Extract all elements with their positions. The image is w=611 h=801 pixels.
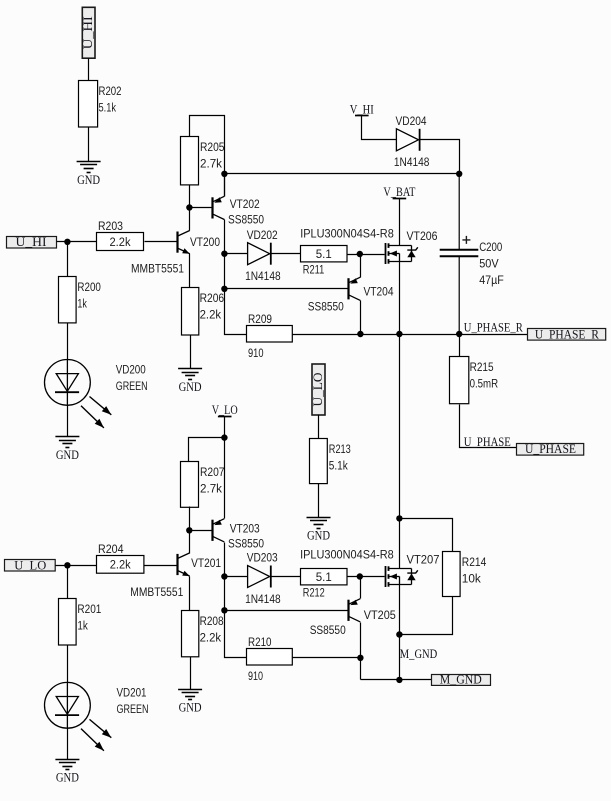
svg-text:10k: 10k [462,572,482,586]
svg-text:MMBT5551: MMBT5551 [130,585,183,599]
wire R215 to U_PHASE [460,405,517,448]
junction node rail right [456,171,462,177]
transistor VT203 [213,519,265,551]
wire node to VT203 base [190,530,212,532]
power port V_LO [212,403,238,417]
junction node VD202 anode [221,251,227,257]
ground GND (R206) [178,369,202,395]
svg-text:U_PHASE_R: U_PHASE_R [464,321,524,335]
svg-text:IPLU300N04S4-R8: IPLU300N04S4-R8 [300,227,394,241]
wire M_GND rail [361,679,432,681]
svg-text:VT203: VT203 [230,521,260,535]
resistor R210 [247,635,293,683]
wire VT204 emitter up [360,255,362,278]
junction node VT204 base tap [221,286,227,292]
wire rail to R215 [459,335,461,357]
svg-text:R202: R202 [99,84,122,98]
wire VT200 emitter to R206 [189,254,191,288]
wire VT205 emitter up [360,577,362,599]
svg-text:R206: R206 [200,291,225,305]
wire R200 to VD200 [67,323,69,360]
svg-text:MMBT5551: MMBT5551 [131,262,184,276]
wire node to VT204 base [225,288,348,290]
diode VD204 [394,114,430,169]
svg-text:910: 910 [248,346,264,360]
LED VD200 [45,360,148,428]
resistor R215 [450,357,499,404]
wire VT207 source down [399,585,401,680]
wire node to VT205 base [225,610,348,612]
svg-text:U_PHASE: U_PHASE [464,435,511,449]
transistor VT205 [310,599,396,637]
wire to VD202 anode [225,253,248,255]
svg-text:U_LO: U_LO [311,373,325,407]
resistor R209 [247,312,293,360]
wire VT204 collector down [360,301,362,335]
wire R204 to VT201 base [145,565,178,567]
resistor R208 [182,611,224,657]
junction node M_GND [396,677,402,683]
svg-text:R210: R210 [248,635,272,649]
resistor R203 [97,219,144,251]
svg-text:R214: R214 [462,555,487,569]
svg-text:1N4148: 1N4148 [394,155,430,169]
net label U_PHASE [517,442,584,456]
svg-text:1N4148: 1N4148 [245,592,281,606]
svg-text:U_PHASE_R: U_PHASE_R [535,328,600,342]
resistor R213 [310,439,351,484]
wire VT206 source to VT207 drain [399,335,401,569]
junction node R214 top tap [396,515,402,521]
svg-text:GND: GND [179,701,202,715]
net label M_GND [432,673,491,687]
svg-text:5.1: 5.1 [316,570,332,584]
svg-text:VT201: VT201 [191,556,221,570]
resistor R205 [181,137,225,185]
wire V_LO stub [224,417,226,438]
junction node VD203 anode [221,573,227,579]
svg-text:SS8550: SS8550 [308,299,344,313]
power port V_HI [350,102,374,116]
svg-text:5.1k: 5.1k [99,101,117,115]
svg-text:1k: 1k [77,297,87,311]
svg-text:VD201: VD201 [117,685,147,699]
wire VT202 collector column [225,220,247,335]
svg-text:2.2k: 2.2k [200,308,222,322]
svg-text:VT205: VT205 [364,608,396,622]
svg-text:GREEN: GREEN [117,702,149,716]
junction node gate/VT204 emitter [357,251,363,257]
net label U_LO (pull) (vertical) [311,364,325,415]
svg-text:U_HI: U_HI [16,235,47,249]
svg-text:5.1: 5.1 [316,247,332,261]
diode VD202 [245,228,281,283]
net label U_HI (input) [7,235,57,249]
svg-text:50V: 50V [479,256,499,270]
svg-text:R215: R215 [470,360,494,374]
transistor VT206 [386,229,438,264]
wire VT206 source down [399,262,401,335]
wire R213 to GND [318,484,320,518]
ground GND (VD201) [55,760,79,785]
wire to R214 bottom [400,597,453,635]
wire R211 to VT206 gate [347,254,385,256]
svg-text:VT206: VT206 [407,229,438,243]
resistor R212 [301,569,348,600]
svg-text:VD204: VD204 [396,114,427,128]
capacitor C200 [440,174,504,334]
svg-text:1k: 1k [77,619,88,633]
wire VD204 to C200 column [420,140,460,174]
wire U_LO to R204 [56,565,97,567]
wire VD203 to R212 [271,576,301,578]
wire R210 to node [293,657,361,659]
ground GND (VD200) [55,437,79,462]
resistor R211 [301,246,348,277]
transistor VT202 [213,196,265,226]
svg-text:R203: R203 [98,219,123,233]
svg-text:2.7k: 2.7k [200,482,223,496]
wire R203 to VT200 base [145,241,178,243]
wire output rail U_PHASE_R [293,334,528,336]
wire U_HI label to R202 [88,59,90,81]
net label U_HI (top) (vertical) [81,7,95,58]
LED VD201 [45,682,149,750]
svg-text:GND: GND [77,173,100,187]
junction node U_HI/R200 [64,239,70,245]
resistor R214 [443,552,487,597]
wire to R214 top [400,519,453,552]
svg-text:VT207: VT207 [407,553,440,567]
wire R202 to GND [88,127,90,162]
junction node VT204 collector [357,331,363,337]
svg-text:SS8550: SS8550 [228,536,264,550]
wire junction to R201 [67,566,69,599]
svg-text:R201: R201 [77,602,101,616]
transistor VT207 [386,553,440,587]
transistor VT200 [131,231,220,276]
wire to VD203 anode [225,576,248,578]
wire R206 to GND [190,336,192,369]
svg-text:R204: R204 [98,542,124,556]
svg-text:VT200: VT200 [190,235,220,249]
svg-text:R209: R209 [248,312,272,326]
wire VT200 collector up [189,208,191,231]
wire top rail R205/VT202 [190,116,225,197]
wire junction to R200 [67,242,69,277]
svg-text:V_BAT: V_BAT [383,185,415,199]
junction node R214 bottom tap [396,631,402,637]
svg-text:IPLU300N04S4-R8: IPLU300N04S4-R8 [300,547,394,561]
wire R207 bottom to node [189,507,191,531]
net label U_LO (input) [5,558,56,572]
wire VT203 emitter lead [224,438,226,519]
svg-text:M_GND: M_GND [400,647,438,661]
net label U_PHASE_R [528,328,606,342]
resistor R207 [181,462,225,508]
junction node C200/R215 [456,331,462,337]
ground GND (R213) [307,518,331,543]
junction node VT205 base tap [221,607,227,613]
junction node rail left [221,171,227,177]
wire R201 to VD201 [67,646,69,683]
wire R205 bottom to node [189,185,191,208]
wire U_HI to R203 [57,241,97,243]
svg-text:R213: R213 [329,442,351,456]
wire VD201 to GND [67,729,69,760]
wire VT202 emitter lead [224,174,226,197]
wire V_HI stub [362,116,397,140]
svg-text:GREEN: GREEN [116,379,148,393]
wire U_LO label to R213 [318,415,320,439]
junction node VT206 source [396,331,402,337]
svg-text:47µF: 47µF [479,273,504,287]
svg-text:GND: GND [56,771,79,785]
svg-text:VD200: VD200 [116,363,146,377]
power port V_BAT [383,185,415,199]
junction node gate/VT205 emitter [357,573,363,579]
svg-text:2.2k: 2.2k [110,558,132,572]
svg-text:V_HI: V_HI [350,102,374,116]
resistor R204 [97,542,144,573]
svg-text:2.2k: 2.2k [200,631,222,645]
svg-text:VD202: VD202 [247,228,278,242]
diode VD203 [245,551,281,606]
wire R212 to VT207 gate [347,576,385,578]
svg-text:M_GND: M_GND [440,673,482,687]
wire V_BAT to VT206 drain [399,199,401,246]
resistor R200 [59,277,101,323]
junction node R207/VT203 base/VT201 collector [186,527,192,533]
wire VT201 emitter to R208 [189,577,191,611]
svg-text:VD203: VD203 [247,551,278,565]
svg-text:R200: R200 [77,280,101,294]
svg-text:U_PHASE: U_PHASE [525,442,576,456]
svg-text:SS8550: SS8550 [228,213,264,227]
svg-text:5.1k: 5.1k [329,459,349,473]
svg-text:SS8550: SS8550 [310,623,346,637]
svg-text:R211: R211 [303,262,325,276]
resistor R201 [59,599,102,646]
svg-text:2.2k: 2.2k [110,235,132,249]
svg-text:R205: R205 [200,140,225,154]
junction node U_LO/R201 [64,562,70,568]
svg-text:0.5mR: 0.5mR [470,377,499,391]
svg-text:910: 910 [248,669,263,683]
resistor R206 [182,288,225,336]
ground GND (R202) [77,162,101,187]
svg-text:VT202: VT202 [230,197,260,211]
svg-text:R208: R208 [200,614,224,628]
wire VD200 to GND [67,406,69,437]
svg-text:R212: R212 [303,585,325,599]
svg-text:VT204: VT204 [364,284,394,298]
svg-text:2.7k: 2.7k [200,157,223,171]
svg-text:GND: GND [179,380,202,394]
svg-text:R207: R207 [200,465,225,479]
svg-text:U_HI: U_HI [81,16,95,49]
wire VT201 collector up [189,531,191,554]
svg-text:U_LO: U_LO [14,558,46,572]
wire VD202 to R211 [271,253,301,255]
wire node to VT202 base [190,207,212,209]
transistor VT201 [130,553,221,599]
wire rail VT202 emitter to C200 [225,173,460,175]
svg-text:GND: GND [307,529,330,543]
junction node V_LO [221,434,227,440]
resistor R202 [79,81,122,128]
wire R208 to GND [190,657,192,690]
wire node to R207 [189,438,225,462]
svg-text:C200: C200 [479,240,502,254]
svg-text:1N4148: 1N4148 [245,269,281,283]
wire VT203 collector column [225,543,247,658]
wire VT205 collector down [360,623,362,680]
junction node R210/VT205 collector [357,655,363,661]
junction node R205/VT202 base/VT200 collector [186,204,192,210]
ground GND (R208) [178,690,202,715]
svg-text:GND: GND [56,448,79,462]
transistor VT204 [308,277,394,313]
svg-text:V_LO: V_LO [212,403,238,417]
